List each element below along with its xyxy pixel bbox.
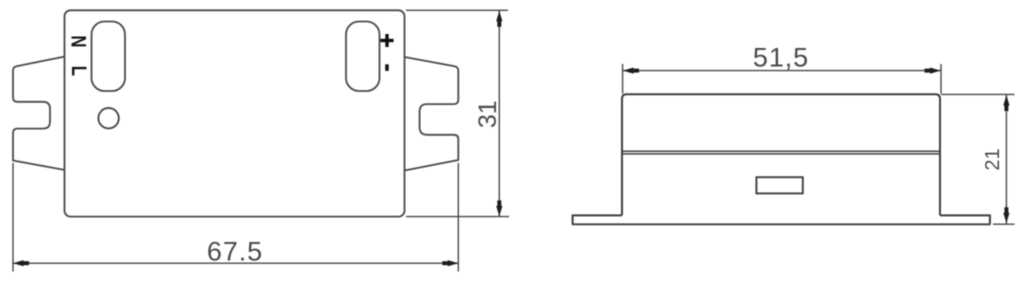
right ear xyxy=(405,57,459,171)
slot +/- xyxy=(346,22,380,92)
svg-text:31: 31 xyxy=(474,100,502,128)
left ear xyxy=(13,57,65,171)
svg-text:21: 21 xyxy=(982,148,1004,170)
dimensions left view xyxy=(13,10,509,271)
ext lines 31 xyxy=(406,9,508,11)
arrow right of 51,5 xyxy=(925,68,941,74)
right flange xyxy=(940,215,990,223)
dim line 21 xyxy=(1005,95,1007,224)
dimensions right view xyxy=(623,64,1015,224)
arrow up of 21 xyxy=(1003,95,1009,111)
ext lines 21 xyxy=(941,93,1015,95)
left flange xyxy=(573,215,622,223)
svg-text:67.5: 67.5 xyxy=(207,237,263,267)
circle hole xyxy=(98,108,118,128)
body outline xyxy=(622,94,940,215)
svg-text:51,5: 51,5 xyxy=(753,43,809,73)
arrow down of 31 xyxy=(496,200,502,216)
ext lines 67.5 xyxy=(12,163,14,272)
dim line 51,5 xyxy=(623,70,941,72)
dim line 31 xyxy=(498,11,500,217)
ext lines 51,5 xyxy=(622,64,624,94)
arrow left of 67.5 xyxy=(13,260,29,266)
arrow down of 21 xyxy=(1003,207,1009,223)
seam lines xyxy=(622,150,940,152)
label slot xyxy=(756,177,802,193)
svg-text:N: N xyxy=(66,35,89,47)
arrow left of 51,5 xyxy=(623,68,639,74)
dim line 67.5 xyxy=(13,262,458,264)
slot N/L xyxy=(92,22,126,92)
arrow right of 67.5 xyxy=(442,260,458,266)
body xyxy=(65,10,405,216)
arrow up of 31 xyxy=(496,11,502,27)
labels N L xyxy=(66,35,90,76)
label + xyxy=(380,34,393,71)
svg-text:L: L xyxy=(67,66,90,76)
label - xyxy=(385,64,389,71)
base line xyxy=(572,223,991,225)
